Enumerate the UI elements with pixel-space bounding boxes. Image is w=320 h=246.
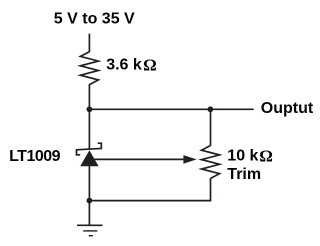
wire: output rail horizontal <box>89 108 253 110</box>
wire: output node down to trim pot top <box>210 109 212 146</box>
zener cathode bar of LT1009 with bent ends <box>77 143 102 155</box>
wire: trim pot bottom to return rail <box>89 178 210 200</box>
ground middle bar <box>83 230 97 232</box>
svg-text:5 V to 35 V: 5 V to 35 V <box>54 10 135 27</box>
potentiometer R2 10k trim zigzag <box>202 146 220 179</box>
diode D1 LT1009 anode triangle <box>80 150 98 166</box>
ground bottom bar <box>89 235 93 237</box>
wire: diode anode down to ground <box>88 165 90 225</box>
wire: supply input down to R1 <box>88 34 90 52</box>
wire: R1 bottom to diode cathode <box>88 84 90 149</box>
svg-text:10 kΩ: 10 kΩ <box>227 146 273 165</box>
node: output junction above trim pot <box>208 106 214 112</box>
ground top bar <box>77 224 103 226</box>
node: output junction at R1 <box>87 106 93 112</box>
svg-text:Ouptut: Ouptut <box>261 100 314 117</box>
resistor R1 3.6k zigzag <box>80 52 98 85</box>
svg-text:3.6 kΩ: 3.6 kΩ <box>106 56 157 75</box>
svg-text:Trim: Trim <box>227 166 261 183</box>
node: ground junction below diode <box>87 198 93 204</box>
svg-text:LT1009: LT1009 <box>9 148 61 165</box>
wiper arrowhead pointing at trim pot <box>183 155 196 164</box>
wiper arrow shaft from LT1009 to trim pot <box>92 158 185 160</box>
